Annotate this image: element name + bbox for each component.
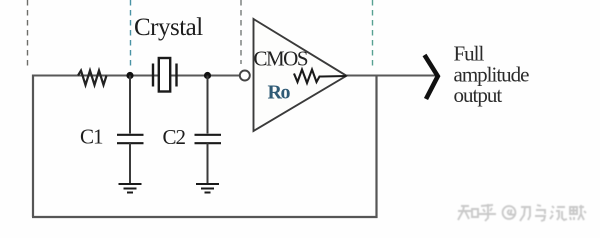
@ bbox=[503, 206, 516, 219]
inverter input bubble bbox=[240, 71, 250, 81]
dashed boundary line 1 (left, gray) bbox=[27, 0, 29, 66]
svg-text:C2: C2 bbox=[163, 125, 186, 149]
与 bbox=[535, 205, 545, 221]
dashed boundary line 3 (gray, at inverter input) bbox=[240, 0, 242, 64]
output arrow chevron bbox=[425, 55, 438, 99]
capacitor C1 top plate bbox=[117, 134, 144, 136]
resistor R (feedback resistor on input wire) bbox=[78, 71, 107, 86]
svg-text:output: output bbox=[454, 83, 503, 107]
wire: main horizontal input net bbox=[33, 75, 240, 77]
crystal X1 right plate bbox=[175, 64, 177, 87]
wire: C2 branch bbox=[207, 76, 209, 134]
ground symbol under C1 bbox=[119, 184, 142, 193]
svg-text:CMOS: CMOS bbox=[254, 47, 308, 71]
刀 bbox=[520, 207, 530, 221]
capacitor C2 top plate bbox=[195, 134, 222, 136]
crystal X1 left plate bbox=[152, 64, 154, 87]
wire: C1 to ground bbox=[129, 143, 131, 184]
capacitor C1 bottom plate bbox=[117, 142, 144, 144]
node dot: crystal right node bbox=[204, 72, 211, 79]
ground symbol under C2 bbox=[196, 184, 219, 193]
watermark 知乎 @刀与沉默 (hand drawn, light gray) bbox=[458, 204, 586, 221]
知 bbox=[458, 206, 478, 220]
dashed boundary line 2 (teal, at crystal left node) bbox=[130, 0, 132, 69]
默 bbox=[570, 205, 586, 220]
wire: C2 to ground bbox=[207, 143, 209, 184]
node dot: crystal left node bbox=[126, 72, 133, 79]
wire: right vertical feedback from output bbox=[375, 76, 377, 219]
svg-text:Crystal: Crystal bbox=[134, 14, 203, 41]
wire: output horizontal bbox=[347, 75, 437, 77]
乎 bbox=[479, 204, 496, 221]
dashed boundary line 4 (teal-green, at output node) bbox=[372, 0, 374, 69]
wire: left vertical feedback bbox=[32, 75, 34, 218]
crystal X1 body rectangle bbox=[159, 58, 170, 92]
resistor Ro zigzag inside inverter bbox=[294, 70, 347, 84]
wire: bottom feedback bbox=[32, 216, 378, 218]
wire: C1 branch bbox=[129, 76, 131, 134]
svg-text:C1: C1 bbox=[80, 125, 103, 149]
op-amp U1 (CMOS inverter triangle) bbox=[254, 19, 347, 131]
沉 bbox=[550, 206, 567, 220]
svg-text:Ro: Ro bbox=[268, 82, 291, 104]
capacitor C2 bottom plate bbox=[195, 142, 222, 144]
